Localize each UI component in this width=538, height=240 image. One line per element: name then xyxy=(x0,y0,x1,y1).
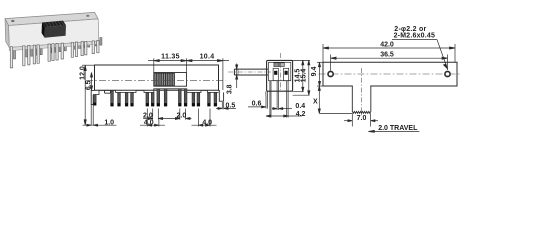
side view: body xyxy=(267,60,293,91)
dims 14.5 / 15.4 xyxy=(293,59,310,61)
dim 9.4 xyxy=(317,61,323,63)
svg-text:4.2: 4.2 xyxy=(296,111,306,118)
photo: mounting hole left xyxy=(11,20,14,22)
front view: pins xyxy=(93,89,216,106)
photo: front pin row xyxy=(10,41,99,68)
photo: back pin row xyxy=(14,38,102,59)
right leg xyxy=(219,90,224,101)
leg extension lines xyxy=(90,104,92,125)
side view: vertical centerline xyxy=(280,53,282,90)
svg-text:9.4: 9.4 xyxy=(311,67,318,77)
svg-text:42.0: 42.0 xyxy=(380,41,394,48)
svg-text:1.0: 1.0 xyxy=(104,119,114,126)
bottom row 2 dims (1.0 4.0 4.0) xyxy=(83,124,117,126)
photo: mounting hole right xyxy=(86,15,89,17)
photo: slider knob xyxy=(42,21,66,38)
svg-text:2.0: 2.0 xyxy=(143,112,153,119)
top view: panel surface line xyxy=(319,112,352,114)
leader for hole spec xyxy=(392,39,437,41)
svg-text:0.4: 0.4 xyxy=(295,103,305,110)
extensions from pins xyxy=(269,99,271,118)
svg-text:4.0: 4.0 xyxy=(202,120,212,127)
dim 4.2 xyxy=(266,115,302,117)
dim 36.5 xyxy=(330,55,332,71)
svg-text:3.8: 3.8 xyxy=(226,84,233,94)
dim 11.35 / 10.4 top xyxy=(153,58,155,72)
photo: front face xyxy=(9,19,99,48)
travel leader xyxy=(369,131,419,133)
svg-text:10.4: 10.4 xyxy=(200,53,215,60)
photo: top face xyxy=(5,12,98,25)
contact towers xyxy=(273,68,278,80)
top view: right hole xyxy=(445,71,450,76)
front view: centerline xyxy=(86,80,226,82)
svg-text:4.0: 4.0 xyxy=(144,120,154,127)
dim X xyxy=(318,86,320,113)
front view: knob (hatched) xyxy=(155,73,175,85)
svg-text:6.5: 6.5 xyxy=(86,80,93,90)
photo: bottom socket band xyxy=(9,41,99,51)
top view: stem centerline xyxy=(361,68,363,117)
side view: arm centerline xyxy=(228,71,271,73)
svg-text:36.5: 36.5 xyxy=(380,51,394,58)
dim 0.6 xyxy=(248,106,266,108)
top view: stem with serrated end xyxy=(352,86,371,114)
top view: left hole xyxy=(328,71,333,76)
dim 6.5 xyxy=(91,73,93,91)
svg-text:X: X xyxy=(313,99,318,106)
svg-text:2.0: 2.0 xyxy=(177,112,187,119)
front view: knob slot xyxy=(154,73,187,87)
photo: left end face xyxy=(5,19,9,48)
side view: actuator arm xyxy=(234,69,268,75)
dim 7.0 xyxy=(351,114,353,127)
dim 42.0 xyxy=(322,44,324,62)
front view: body outline xyxy=(95,65,219,90)
top view: plate xyxy=(323,62,457,86)
dim 12.0 left xyxy=(82,64,95,66)
front view: bottom castellated profile xyxy=(91,89,223,105)
3D photo of slide switch xyxy=(5,12,102,68)
front view: pin tips xyxy=(93,103,216,107)
top view: centerline xyxy=(319,73,462,75)
left leg xyxy=(91,90,94,104)
dim 0.5 right xyxy=(221,102,223,109)
boss xyxy=(105,90,111,93)
svg-text:15.4: 15.4 xyxy=(300,69,307,83)
svg-text:2.0 TRAVEL: 2.0 TRAVEL xyxy=(378,125,418,132)
bottom row 1 dims (2.0 2.0) xyxy=(152,109,154,120)
side view: pins below xyxy=(266,81,288,99)
dim 0.4 xyxy=(272,108,277,110)
svg-text:0.6: 0.6 xyxy=(252,101,262,108)
svg-text:7.0: 7.0 xyxy=(357,115,367,122)
dim 3.8 arm thickness xyxy=(236,64,238,70)
svg-text:0.5: 0.5 xyxy=(226,103,236,110)
svg-text:12.0: 12.0 xyxy=(79,66,86,80)
slider pieces in upper band xyxy=(274,63,279,67)
svg-text:11.35: 11.35 xyxy=(161,53,180,60)
stepped bottom edge xyxy=(93,89,218,95)
svg-text:2-M2.6x0.45: 2-M2.6x0.45 xyxy=(394,32,436,39)
